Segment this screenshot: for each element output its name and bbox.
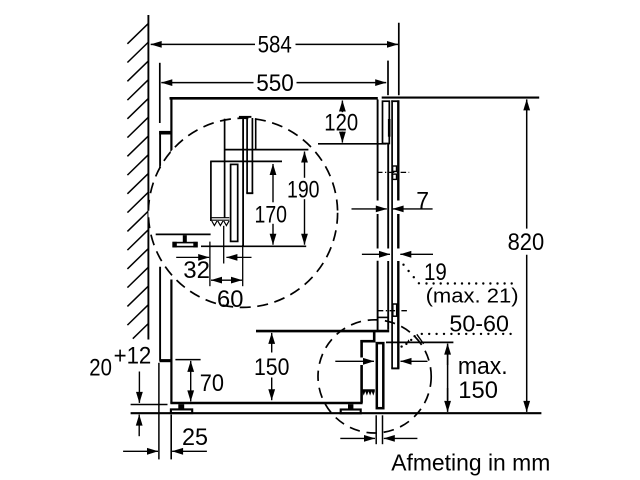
niche back extension line (550 ref): [159, 63, 161, 123]
plinth board: [377, 343, 384, 408]
svg-text:70: 70: [200, 370, 224, 397]
plinth recess dimension (50-60): [335, 360, 374, 362]
7 dimension: [352, 208, 387, 210]
detail bubble small: [318, 320, 431, 433]
120 dimension: [341, 101, 343, 113]
detail bubble big: [148, 118, 337, 307]
door bracket lower: [393, 304, 397, 316]
svg-text:20: 20: [89, 355, 112, 382]
50-60 dotted leader: [400, 333, 511, 348]
appliance bottom: [170, 402, 362, 405]
magnified foot stem: [183, 235, 187, 242]
step horizontal: [360, 340, 375, 343]
32 dimension: [176, 256, 209, 258]
svg-text:190: 190: [287, 176, 320, 203]
plinth board extension lines: [375, 415, 377, 444]
centerline lower: [378, 310, 409, 312]
60 dimension: [211, 279, 242, 281]
line A (190 ref): [225, 149, 309, 151]
svg-text:19: 19: [424, 259, 447, 286]
svg-text:170: 170: [255, 201, 288, 228]
appliance back upper: [170, 98, 172, 153]
connector appliance/door: [377, 316, 389, 318]
standpipe tube: [246, 118, 248, 194]
top rail rect: [383, 101, 390, 143]
svg-text:584: 584: [258, 32, 292, 59]
170 dimension: [272, 164, 274, 202]
step vertical 2 (plinth recess face): [360, 340, 363, 403]
70 tick: [175, 359, 200, 361]
hose line: [242, 118, 244, 246]
svg-text:120: 120: [324, 110, 358, 137]
foot right plate: [341, 410, 361, 414]
wall: [147, 15, 149, 340]
120 tick: [318, 143, 386, 145]
svg-text:50-60: 50-60: [449, 311, 509, 337]
worktop right segment: [382, 97, 540, 99]
drain hose rect: [231, 164, 238, 241]
wall spacer bar top: [159, 131, 171, 135]
tick appliance-bottom-left (20+12 ref): [131, 404, 168, 406]
svg-text:7: 7: [416, 187, 429, 214]
hose top cap: [239, 116, 252, 118]
zigzag foot thread: [362, 389, 375, 395]
svg-text:150: 150: [254, 354, 289, 381]
19 door-thickness dimension: [362, 253, 390, 255]
foot right stem: [348, 404, 353, 409]
584 dimension: [151, 43, 162, 45]
door panel: [391, 100, 399, 368]
svg-text:150: 150: [458, 377, 498, 404]
appliance right edge: [377, 100, 379, 332]
svg-text:Afmeting in mm: Afmeting in mm: [391, 449, 550, 475]
svg-text:32: 32: [183, 257, 210, 284]
hose holder right edge / pipe: [224, 119, 226, 218]
floor line: [131, 412, 542, 414]
svg-text:60: 60: [217, 286, 243, 313]
svg-text:820: 820: [508, 229, 545, 256]
hinge strip: [388, 119, 391, 137]
820 dimension: [526, 99, 528, 228]
25 extension lines: [158, 363, 160, 460]
wall spacer bar bottom: [160, 359, 172, 362]
wall hatching: [127, 24, 148, 339]
25 dimension: [123, 450, 158, 452]
holder top line: [210, 160, 282, 162]
foot left stem: [178, 404, 184, 409]
niche back line lower: [159, 267, 161, 361]
32 extension lines: [209, 242, 211, 287]
niche back line upper: [159, 131, 161, 169]
cabinet top line: [170, 97, 378, 100]
magnified appliance bottom: [156, 233, 211, 235]
base front line (150 ref): [256, 330, 389, 333]
svg-text:550: 550: [256, 70, 294, 97]
svg-text:25: 25: [182, 424, 208, 451]
max 150 dimension: [447, 344, 449, 365]
150 dimension: [271, 333, 273, 353]
appliance front face: [387, 144, 389, 330]
plinth board dimension arrows: [340, 437, 375, 439]
door bracket upper: [393, 166, 397, 179]
20+12 arrows: [138, 372, 140, 403]
max150 ref line: [386, 341, 453, 343]
584 right extension: [398, 23, 400, 96]
step vertical 1: [373, 330, 376, 342]
550 dimension: [161, 82, 172, 84]
appliance back lower: [170, 280, 172, 404]
holder teeth: [210, 217, 229, 219]
centerline upper: [377, 171, 409, 173]
hose holder left edge: [210, 161, 212, 221]
bubble floor: [201, 245, 306, 247]
19 dotted leader: [402, 264, 513, 285]
svg-text:+12: +12: [114, 343, 152, 370]
70 dimension: [190, 361, 192, 380]
svg-text:(max. 21): (max. 21): [426, 285, 519, 308]
short pipe line: [255, 118, 257, 149]
foot left plate: [171, 409, 192, 413]
550 right extension: [387, 61, 389, 96]
190 dimension: [304, 152, 306, 178]
magnified foot plate: [173, 243, 197, 247]
50-60 leader slash: [417, 334, 424, 344]
leader end mark: [407, 339, 411, 343]
